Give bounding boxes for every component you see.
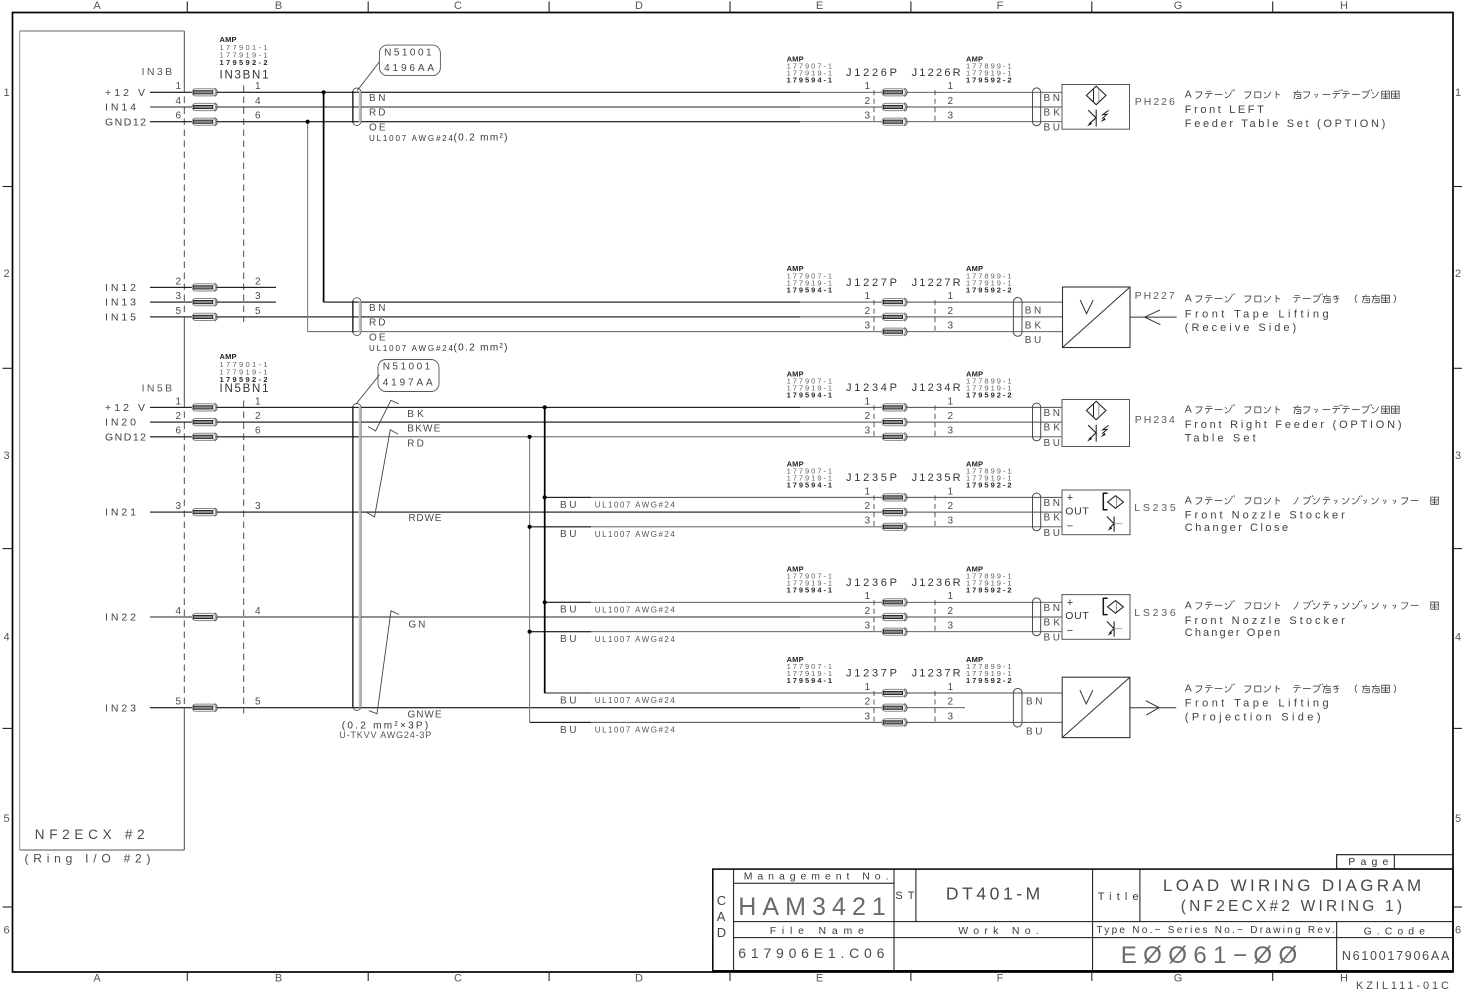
svg-text:1: 1 [948, 591, 954, 602]
svg-text:5: 5 [255, 306, 261, 317]
svg-text:4196AA: 4196AA [384, 63, 434, 74]
svg-text:5: 5 [175, 697, 181, 708]
svg-text:J1227P: J1227P [846, 277, 897, 289]
svg-text:GND12: GND12 [105, 116, 146, 128]
svg-text:D: D [717, 925, 726, 940]
svg-text:D: D [635, 0, 643, 12]
svg-text:J1234R: J1234R [912, 382, 961, 394]
svg-text:1: 1 [255, 396, 261, 407]
svg-text:U-TKVV AWG24-3P: U-TKVV AWG24-3P [339, 730, 431, 740]
svg-text:2: 2 [864, 606, 870, 617]
svg-text:A: A [93, 0, 101, 12]
svg-text:Changer Open: Changer Open [1185, 627, 1280, 639]
svg-text:2: 2 [864, 96, 870, 107]
svg-text:A: A [1185, 293, 1192, 305]
svg-text:2: 2 [864, 501, 870, 512]
svg-text:GNWE: GNWE [408, 710, 442, 721]
svg-text:2: 2 [864, 411, 870, 422]
svg-text:2: 2 [864, 306, 870, 317]
svg-text:G: G [1174, 0, 1183, 12]
svg-text:Title: Title [1098, 891, 1139, 903]
svg-text:2: 2 [175, 276, 181, 287]
svg-text:4: 4 [3, 632, 9, 644]
svg-text:3: 3 [1455, 450, 1461, 462]
svg-text:Front LEFT: Front LEFT [1185, 104, 1264, 116]
svg-text:2: 2 [3, 268, 9, 280]
svg-text:6: 6 [255, 426, 261, 437]
svg-text:3: 3 [175, 501, 181, 512]
svg-text:1: 1 [948, 396, 954, 407]
svg-text:2: 2 [948, 411, 954, 422]
svg-text:Table Set: Table Set [1185, 433, 1256, 445]
svg-text:3: 3 [864, 621, 870, 632]
svg-text:C: C [454, 0, 462, 12]
svg-text:B: B [275, 972, 282, 984]
svg-text:1: 1 [864, 291, 870, 302]
svg-text:1: 1 [255, 81, 261, 92]
svg-text:IN5B: IN5B [142, 382, 173, 394]
svg-text:Front Tape Lifting: Front Tape Lifting [1185, 697, 1329, 709]
svg-text:Type No.− Series No.− Drawing: Type No.− Series No.− Drawing Rev. [1097, 925, 1335, 936]
svg-text:A: A [1185, 88, 1192, 100]
svg-text:6: 6 [1455, 925, 1461, 937]
svg-text:2: 2 [175, 411, 181, 422]
svg-text:(0.2 mm²): (0.2 mm²) [454, 343, 508, 354]
svg-text:2: 2 [255, 411, 261, 422]
svg-text:1: 1 [175, 81, 181, 92]
svg-text:1: 1 [948, 291, 954, 302]
svg-text:−: − [1067, 625, 1073, 637]
svg-text:E: E [816, 972, 823, 984]
svg-text:D: D [635, 972, 643, 984]
svg-text:2: 2 [948, 606, 954, 617]
svg-text:J1237R: J1237R [912, 668, 961, 680]
svg-text:3: 3 [948, 516, 954, 527]
svg-text:2: 2 [948, 96, 954, 107]
svg-text:1: 1 [864, 396, 870, 407]
svg-text:3: 3 [948, 426, 954, 437]
svg-text:3: 3 [864, 321, 870, 332]
svg-text:BKWE: BKWE [407, 424, 440, 435]
svg-text:+: + [1067, 492, 1073, 504]
svg-text:A: A [1185, 403, 1192, 415]
svg-text:3: 3 [255, 501, 261, 512]
svg-text:6: 6 [255, 111, 261, 122]
svg-text:OUT: OUT [1065, 610, 1089, 622]
svg-text:2: 2 [864, 697, 870, 708]
svg-text:4: 4 [1455, 632, 1461, 644]
svg-text:3: 3 [255, 291, 261, 302]
svg-text:+: + [1067, 597, 1073, 609]
svg-text:1: 1 [864, 682, 870, 693]
svg-text:−: − [1067, 520, 1073, 532]
svg-text:A: A [1185, 494, 1192, 506]
svg-text:4: 4 [175, 606, 181, 617]
svg-text:3: 3 [864, 516, 870, 527]
svg-text:KZIL111-01C: KZIL111-01C [1356, 980, 1449, 992]
svg-text:3: 3 [175, 291, 181, 302]
svg-text:3: 3 [864, 426, 870, 437]
svg-text:IN5BN1: IN5BN1 [220, 383, 269, 395]
svg-text:6: 6 [3, 925, 9, 937]
svg-text:3: 3 [948, 111, 954, 122]
svg-text:E: E [816, 0, 823, 12]
svg-text:5: 5 [3, 813, 9, 825]
svg-text:2: 2 [948, 306, 954, 317]
svg-text:1: 1 [1455, 87, 1461, 99]
svg-text:J1236R: J1236R [912, 577, 961, 589]
svg-text:4197AA: 4197AA [383, 378, 433, 389]
svg-text:GND12: GND12 [105, 431, 146, 443]
svg-text:2: 2 [948, 697, 954, 708]
svg-text:1: 1 [175, 396, 181, 407]
svg-text:J1236P: J1236P [846, 577, 897, 589]
svg-text:F: F [997, 0, 1004, 12]
svg-text:1: 1 [3, 87, 9, 99]
svg-text:Front Tape Lifting: Front Tape Lifting [1185, 308, 1329, 320]
svg-text:1: 1 [948, 81, 954, 92]
svg-text:H: H [1340, 0, 1348, 12]
svg-text:J1227R: J1227R [912, 277, 961, 289]
svg-text:IN3BN1: IN3BN1 [220, 69, 269, 81]
svg-text:NF2ECX #2: NF2ECX #2 [35, 827, 145, 842]
svg-text:IN3B: IN3B [142, 66, 173, 78]
svg-text:LOAD WIRING DIAGRAM: LOAD WIRING DIAGRAM [1163, 876, 1421, 895]
svg-text:J1235P: J1235P [846, 472, 897, 484]
svg-text:3: 3 [3, 450, 9, 462]
svg-text:J1234P: J1234P [846, 382, 897, 394]
svg-text:PH226: PH226 [1135, 96, 1175, 108]
svg-text:A: A [1185, 683, 1192, 695]
svg-text:6: 6 [175, 426, 181, 437]
svg-text:C: C [454, 972, 462, 984]
svg-text:J1237P: J1237P [846, 668, 897, 680]
svg-text:1: 1 [864, 81, 870, 92]
svg-text:3: 3 [948, 711, 954, 722]
svg-text:2: 2 [1455, 268, 1461, 280]
svg-text:6: 6 [175, 111, 181, 122]
svg-text:OUT: OUT [1065, 506, 1089, 518]
svg-text:(0.2 mm²): (0.2 mm²) [454, 133, 508, 144]
svg-text:+12 V: +12 V [105, 87, 145, 99]
svg-text:5: 5 [255, 697, 261, 708]
svg-text:1: 1 [864, 591, 870, 602]
svg-text:1: 1 [948, 486, 954, 497]
svg-text:1: 1 [864, 486, 870, 497]
svg-text:A: A [1185, 599, 1192, 611]
svg-text:A: A [717, 909, 726, 924]
svg-text:G: G [1174, 972, 1183, 984]
svg-text:3: 3 [948, 321, 954, 332]
svg-text:PH227: PH227 [1135, 290, 1175, 302]
svg-text:A: A [93, 972, 101, 984]
svg-text:5: 5 [1455, 813, 1461, 825]
svg-text:2: 2 [255, 276, 261, 287]
svg-text:PH234: PH234 [1135, 414, 1175, 426]
svg-text:3: 3 [948, 621, 954, 632]
svg-text:N610017906AA: N610017906AA [1342, 949, 1450, 963]
svg-text:F: F [997, 972, 1004, 984]
svg-text:2: 2 [948, 501, 954, 512]
svg-text:4: 4 [175, 96, 181, 107]
svg-text:J1226R: J1226R [912, 67, 961, 79]
svg-text:J1235R: J1235R [912, 472, 961, 484]
svg-text:H: H [1340, 972, 1348, 984]
svg-text:3: 3 [864, 111, 870, 122]
svg-text:4: 4 [255, 96, 261, 107]
svg-text:1: 1 [948, 682, 954, 693]
svg-text:3: 3 [864, 711, 870, 722]
svg-text:5: 5 [175, 306, 181, 317]
svg-text:J1226P: J1226P [846, 67, 897, 79]
svg-text:4: 4 [255, 606, 261, 617]
svg-text:RDWE: RDWE [408, 513, 441, 524]
svg-text:B: B [275, 0, 282, 12]
svg-text:C: C [717, 893, 726, 908]
svg-text:+12 V: +12 V [105, 402, 145, 414]
